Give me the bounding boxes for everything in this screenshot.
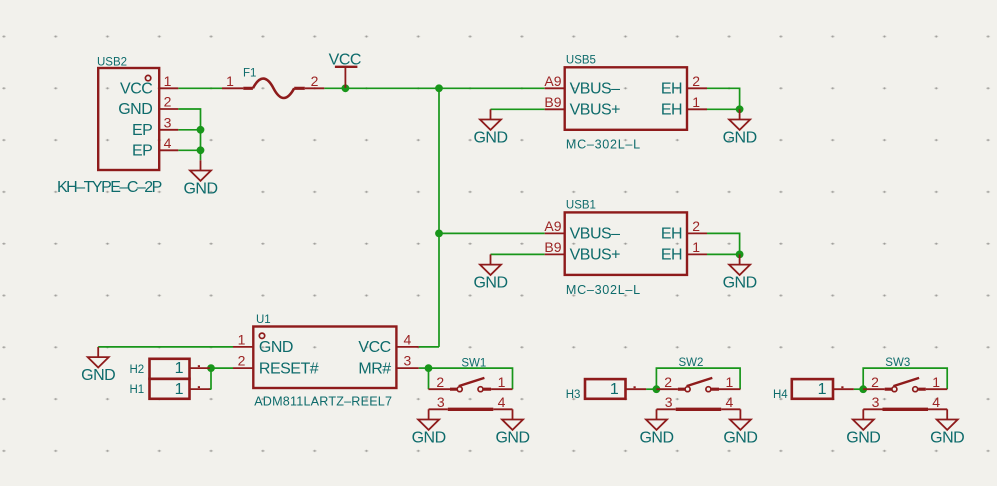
svg-text:EH: EH: [661, 101, 682, 118]
svg-text:H2: H2: [130, 364, 145, 376]
svg-text:3: 3: [164, 114, 172, 130]
svg-text:4: 4: [164, 135, 172, 151]
svg-text:2: 2: [871, 374, 879, 390]
svg-text:EP: EP: [132, 142, 152, 159]
svg-text:1: 1: [932, 374, 940, 390]
svg-text:H1: H1: [130, 384, 145, 396]
svg-text:MR#: MR#: [358, 360, 391, 377]
svg-text:3: 3: [404, 353, 412, 369]
svg-text:USB2: USB2: [97, 57, 127, 69]
svg-text:VCC: VCC: [329, 52, 361, 69]
svg-text:KH–TYPE–C–2P: KH–TYPE–C–2P: [57, 179, 162, 196]
svg-text:4: 4: [932, 394, 940, 410]
svg-text:2: 2: [664, 374, 672, 390]
svg-text:VBUS–: VBUS–: [570, 226, 621, 243]
svg-text:1: 1: [238, 332, 246, 348]
svg-text:GND: GND: [723, 130, 757, 147]
svg-text:VCC: VCC: [120, 81, 152, 98]
svg-text:3: 3: [665, 394, 673, 410]
svg-text:USB1: USB1: [566, 200, 596, 212]
svg-text:2: 2: [692, 218, 700, 234]
svg-text:SW1: SW1: [461, 357, 486, 369]
svg-text:SW3: SW3: [885, 357, 910, 369]
svg-text:GND: GND: [473, 130, 507, 147]
svg-text:VBUS+: VBUS+: [570, 101, 621, 118]
svg-text:U1: U1: [256, 314, 271, 326]
svg-text:1: 1: [692, 94, 700, 110]
svg-text:GND: GND: [183, 181, 217, 198]
svg-text:1: 1: [164, 73, 172, 89]
svg-text:1: 1: [175, 381, 184, 398]
svg-text:2: 2: [692, 73, 700, 89]
svg-text:GND: GND: [473, 275, 507, 292]
svg-text:EH: EH: [661, 247, 682, 264]
svg-text:VBUS+: VBUS+: [570, 247, 621, 264]
svg-text:GND: GND: [412, 430, 446, 447]
svg-text:H3: H3: [566, 389, 581, 401]
svg-text:A9: A9: [544, 218, 561, 234]
svg-text:B9: B9: [544, 239, 561, 255]
svg-text:4: 4: [726, 394, 734, 410]
svg-text:4: 4: [498, 394, 506, 410]
svg-text:1: 1: [175, 360, 184, 377]
svg-text:2: 2: [238, 353, 246, 369]
svg-text:A9: A9: [544, 73, 561, 89]
svg-text:VCC: VCC: [358, 339, 390, 356]
svg-text:2: 2: [164, 94, 172, 110]
svg-text:GND: GND: [495, 430, 529, 447]
svg-text:GND: GND: [639, 430, 673, 447]
svg-text:VBUS–: VBUS–: [570, 80, 621, 97]
svg-text:GND: GND: [846, 430, 880, 447]
svg-text:GND: GND: [723, 430, 757, 447]
svg-text:RESET#: RESET#: [259, 360, 319, 377]
svg-text:GND: GND: [259, 339, 293, 356]
svg-text:1: 1: [726, 374, 734, 390]
svg-text:ADM811LARTZ–REEL7: ADM811LARTZ–REEL7: [254, 395, 392, 409]
svg-text:4: 4: [404, 332, 412, 348]
svg-text:2: 2: [311, 73, 319, 89]
svg-text:B9: B9: [544, 94, 561, 110]
svg-text:3: 3: [872, 394, 880, 410]
svg-text:F1: F1: [243, 68, 256, 80]
svg-text:1: 1: [226, 73, 234, 89]
svg-text:3: 3: [437, 394, 445, 410]
svg-text:1: 1: [818, 381, 827, 398]
svg-text:EH: EH: [661, 80, 682, 97]
svg-text:EP: EP: [132, 122, 152, 139]
svg-text:MC–302L–L: MC–302L–L: [566, 283, 641, 297]
svg-text:MC–302L–L: MC–302L–L: [566, 138, 641, 152]
svg-text:SW2: SW2: [679, 357, 704, 369]
svg-text:GND: GND: [930, 430, 964, 447]
svg-text:1: 1: [692, 239, 700, 255]
svg-text:EH: EH: [661, 226, 682, 243]
svg-text:H4: H4: [773, 389, 788, 401]
svg-text:GND: GND: [81, 367, 115, 384]
svg-text:2: 2: [436, 374, 444, 390]
svg-text:USB5: USB5: [566, 55, 596, 67]
svg-text:1: 1: [498, 374, 506, 390]
svg-text:1: 1: [610, 381, 619, 398]
svg-text:GND: GND: [118, 101, 152, 118]
svg-text:GND: GND: [723, 275, 757, 292]
